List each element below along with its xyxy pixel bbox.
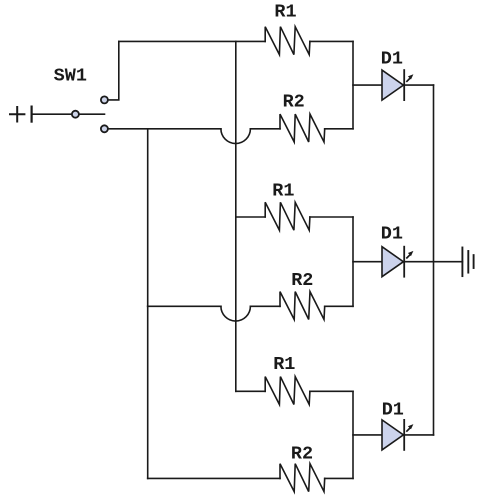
junction left rail top	[147, 129, 149, 306]
svg-text:R2: R2	[283, 92, 305, 113]
svg-text:D1: D1	[381, 224, 403, 245]
wire loop right vertical (branch 3)	[352, 391, 354, 478]
battery terminal bar	[31, 107, 33, 122]
wire R1 right to loop corner (branch 1)	[310, 40, 353, 42]
resistor R2 (branch 3)	[280, 464, 325, 492]
resistor R1 (branch 3)	[265, 377, 310, 405]
LED D1 arrow (branch 3)	[407, 424, 414, 431]
LED D1 arrow (branch 1)	[407, 74, 414, 81]
resistor R2 (branch 2)	[280, 292, 325, 320]
wire loop to LED anode (branch 2)	[353, 261, 382, 263]
wire battery to switch pole	[32, 113, 71, 115]
wire hop to resistor R2 (branch 1)	[250, 128, 280, 130]
wire R2 right to loop corner (branch 3)	[325, 477, 353, 479]
svg-text:SW1: SW1	[54, 66, 87, 87]
wire R1 right to loop corner (branch 2)	[310, 216, 353, 218]
wire loop right vertical (branch 1)	[352, 41, 354, 128]
switch SW1 top throw terminal	[101, 96, 108, 103]
LED D1 triangle (branch 3)	[382, 420, 403, 450]
LED D1 cathode bar (branch 2)	[403, 247, 405, 277]
svg-text:D1: D1	[382, 399, 404, 420]
wire top rail to resistor R1 (branch 1)	[119, 40, 265, 42]
switch SW1 pole terminal	[72, 111, 79, 118]
LED D1 cathode bar (branch 1)	[403, 70, 405, 100]
wire R2 right to loop corner (branch 1)	[325, 128, 353, 130]
wire switch bottom throw to hop (branch 1)	[109, 128, 221, 130]
wire bus to resistor R1 (branch 2)	[236, 216, 265, 218]
svg-text:R2: R2	[291, 443, 313, 464]
LED D1 triangle (branch 2)	[382, 247, 403, 277]
svg-text:R2: R2	[291, 270, 313, 291]
ground	[462, 248, 473, 277]
wire bus to resistor R1 (branch 3)	[236, 390, 265, 392]
wire right bus to ground	[434, 261, 463, 263]
svg-text:R1: R1	[273, 354, 295, 375]
wire loop to LED anode (branch 3)	[353, 434, 382, 436]
wire R2 right to loop corner (branch 2)	[325, 305, 353, 307]
wire loop to LED anode (branch 1)	[353, 84, 382, 86]
resistor R2 (branch 1)	[280, 114, 325, 142]
wire left rail to hop (branch 2)	[148, 305, 221, 307]
wire hop over bus (branch 1)	[221, 129, 251, 144]
right bus vertical	[433, 85, 435, 435]
svg-text:R1: R1	[272, 181, 294, 202]
wire switch top throw up to top rail	[109, 41, 119, 100]
wire bottom rail to resistor R2 (branch 3)	[148, 477, 280, 479]
resistor R1 (branch 1)	[265, 27, 310, 55]
wire LED cathode to right bus (branch 3)	[404, 434, 433, 436]
battery positive terminal + symbol	[10, 107, 24, 122]
wire hop to resistor R2 (branch 2)	[250, 305, 280, 307]
LED D1 arrow (branch 2)	[407, 251, 414, 258]
wire left rail lower segment	[147, 306, 149, 478]
wire hop over bus (branch 2)	[221, 306, 251, 321]
switch SW1 lever	[80, 113, 105, 115]
wire LED cathode to right bus (branch 2)	[404, 261, 433, 263]
svg-text:R1: R1	[274, 2, 296, 23]
LED D1 triangle (branch 1)	[382, 70, 403, 100]
switch SW1 bottom throw terminal	[101, 125, 108, 132]
resistor R1 (branch 2)	[265, 202, 310, 230]
wire R1 right to loop corner (branch 3)	[310, 390, 353, 392]
wire loop right vertical (branch 2)	[352, 217, 354, 306]
svg-text:D1: D1	[381, 49, 403, 70]
node vertical bus from top rail down	[235, 41, 237, 391]
LED D1 cathode bar (branch 3)	[403, 420, 405, 450]
wire LED cathode to right bus (branch 1)	[404, 84, 433, 86]
